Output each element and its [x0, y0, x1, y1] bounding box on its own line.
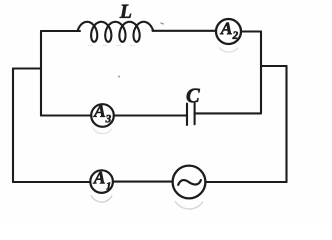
scan shadow under coil loops: [88, 45, 140, 47]
capacitor C left plate: [186, 104, 188, 126]
label C: [187, 89, 200, 103]
ac source circle: [173, 166, 206, 199]
ammeter A2 circle: [216, 19, 241, 44]
label A3 subscript 3: [106, 115, 111, 122]
wire right outer vertical: [285, 66, 287, 182]
wire middle-left to A3: [41, 114, 91, 116]
wire right inner stub vertical: [260, 32, 262, 114]
wire A1 to source: [113, 181, 173, 183]
ac source sine symbol: [178, 180, 201, 185]
inductor L: [78, 22, 154, 42]
wire A2 to right stub: [241, 30, 261, 32]
wire right jog horizontal: [261, 65, 287, 67]
label A3: [93, 105, 105, 117]
ammeter A1 circle: [90, 170, 113, 193]
ammeter A3 circle: [91, 104, 114, 127]
scan shadow under ac source: [175, 201, 203, 209]
wire A3 to capacitor: [114, 114, 187, 116]
wire left jog horizontal: [13, 67, 41, 69]
label A2: [220, 23, 232, 35]
wire left inner stub vertical: [40, 31, 42, 116]
wire coil to A2: [153, 30, 217, 32]
stray dash after coil: [161, 23, 164, 24]
scan shadow under A3: [93, 129, 112, 134]
capacitor C right plate: [194, 103, 196, 124]
scan shadow under A1: [91, 195, 112, 202]
wire capacitor to right stub: [195, 112, 261, 114]
label A2 subscript 2: [233, 32, 238, 39]
label L: [120, 5, 131, 18]
scan shadow under A2: [219, 48, 238, 53]
speck mark: [118, 76, 120, 78]
label A1: [93, 172, 105, 184]
wire top-left horizontal: [41, 30, 80, 32]
label A1 subscript 1: [106, 182, 110, 189]
wire bottom-left to A1: [13, 181, 90, 183]
wire source to bottom-right: [205, 181, 286, 183]
wire left outer vertical: [12, 69, 14, 183]
